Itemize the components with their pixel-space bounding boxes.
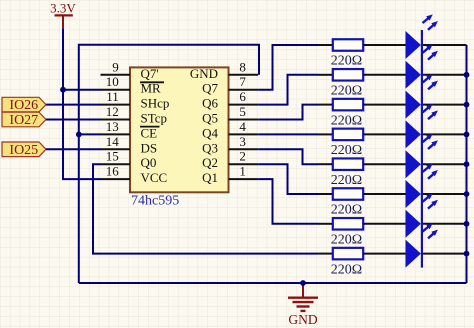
wire R5 to LED D5 anode xyxy=(363,163,406,165)
wire Q4 to row4 xyxy=(258,133,318,135)
junction bus row 2 xyxy=(464,72,470,78)
svg-text:GND: GND xyxy=(190,66,218,81)
svg-text:SHcp: SHcp xyxy=(141,96,170,111)
junction bus row 7 xyxy=(464,221,470,227)
svg-text:13: 13 xyxy=(106,119,119,134)
LED D1 xyxy=(406,14,438,59)
svg-text:DS: DS xyxy=(141,140,158,155)
port IO25 xyxy=(2,142,46,158)
wire R1 to LED D1 anode xyxy=(363,44,406,46)
svg-text:220Ω: 220Ω xyxy=(331,113,362,128)
wire R3 to LED D3 anode xyxy=(363,104,406,106)
junction bus row 4 xyxy=(464,132,470,138)
LED D7 xyxy=(406,193,438,238)
svg-text:220Ω: 220Ω xyxy=(331,173,362,188)
resistor R7 lead left xyxy=(319,223,333,225)
resistor R6 xyxy=(331,188,363,217)
wire R4 to LED D4 anode xyxy=(363,133,406,135)
svg-text:Q2: Q2 xyxy=(202,155,218,170)
svg-text:14: 14 xyxy=(106,134,120,149)
junction bus row 8 xyxy=(464,251,470,257)
wire CE to GND rail xyxy=(79,133,101,135)
resistor R5 lead left xyxy=(319,163,333,165)
resistor R1 xyxy=(331,39,363,68)
wire LED D7 cathode to right bus xyxy=(422,223,467,225)
resistor R2 xyxy=(331,69,363,98)
wire Q2 to row6 xyxy=(258,164,318,194)
svg-text:Q7: Q7 xyxy=(202,81,218,96)
svg-text:220Ω: 220Ω xyxy=(331,143,362,158)
svg-text:12: 12 xyxy=(106,104,119,119)
svg-text:Q3: Q3 xyxy=(202,140,218,155)
pin 3 Q3 xyxy=(202,134,258,156)
power 3.3V xyxy=(50,1,76,29)
wire LED D4 cathode to right bus xyxy=(422,133,467,135)
svg-text:74hc595: 74hc595 xyxy=(131,194,179,209)
junction bus row 3 xyxy=(464,102,470,108)
svg-text:16: 16 xyxy=(106,164,120,179)
resistor R8 lead left xyxy=(319,253,333,255)
svg-text:220Ω: 220Ω xyxy=(331,203,362,218)
svg-text:5: 5 xyxy=(239,104,246,119)
pin 15 Q0 xyxy=(101,149,157,171)
svg-text:8: 8 xyxy=(239,59,246,74)
pin 10 MR xyxy=(101,74,165,96)
junction bus row 6 xyxy=(464,191,470,197)
LED D4 xyxy=(406,104,438,149)
IC U1 74hc595 xyxy=(130,67,229,208)
svg-text:7: 7 xyxy=(239,74,246,89)
svg-text:15: 15 xyxy=(106,149,119,164)
wire LED D2 cathode to right bus xyxy=(422,74,467,76)
wire MR to 3.3V xyxy=(63,89,101,91)
LED D5 xyxy=(406,134,438,179)
svg-text:VCC: VCC xyxy=(141,170,168,185)
ground xyxy=(288,283,318,327)
pin 1 Q1 xyxy=(202,164,258,186)
svg-text:2: 2 xyxy=(239,149,246,164)
svg-text:IO27: IO27 xyxy=(9,113,38,128)
svg-text:3.3V: 3.3V xyxy=(50,1,76,16)
port IO27 xyxy=(2,112,46,128)
wire R8 to LED D8 anode xyxy=(363,253,406,255)
svg-text:Q4: Q4 xyxy=(202,125,218,140)
svg-text:220Ω: 220Ω xyxy=(331,233,362,248)
pin 2 Q2 xyxy=(202,149,258,171)
resistor R8 xyxy=(331,248,363,277)
resistor R5 xyxy=(331,158,363,187)
wire Q7 to row1 xyxy=(258,45,318,90)
LED D8 xyxy=(406,223,438,268)
resistor R2 lead left xyxy=(319,74,333,76)
pin 11 SHcp xyxy=(101,89,170,111)
wire bottom GND bus xyxy=(79,282,467,284)
pin 4 Q4 xyxy=(202,119,258,141)
wire LED D5 cathode to right bus xyxy=(422,163,467,165)
wire Q3 to row5 xyxy=(258,149,318,164)
pin 7 Q7 xyxy=(202,74,258,96)
LED D2 xyxy=(406,44,438,89)
resistor R1 lead left xyxy=(319,44,333,46)
svg-text:STcp: STcp xyxy=(141,111,168,126)
LED D3 xyxy=(406,74,438,119)
svg-text:9: 9 xyxy=(112,59,119,74)
svg-text:4: 4 xyxy=(239,119,246,134)
pin 14 DS xyxy=(101,134,158,156)
svg-text:GND: GND xyxy=(288,312,317,327)
pin 6 Q6 xyxy=(202,89,258,111)
pin 16 VCC xyxy=(101,164,168,186)
svg-text:IO25: IO25 xyxy=(9,143,38,158)
wire R6 to LED D6 anode xyxy=(363,193,406,195)
svg-text:Q1: Q1 xyxy=(202,170,218,185)
wire IO26 to SHcp xyxy=(46,104,101,106)
wire Q0 around to row 8 xyxy=(93,164,319,253)
pin 13 CE xyxy=(101,119,160,141)
svg-text:Q5: Q5 xyxy=(202,111,218,126)
junction bus row 5 xyxy=(464,161,470,167)
wire 3.3V rail xyxy=(63,28,101,179)
pin 12 STcp xyxy=(101,104,168,126)
LED D6 xyxy=(406,163,438,208)
junction 3.3V/MR xyxy=(60,87,66,93)
wire LED D1 cathode to right bus xyxy=(422,44,467,46)
wire IO25 to DS xyxy=(46,148,101,150)
pin 8 GND xyxy=(190,59,258,81)
wire R7 to LED D7 anode xyxy=(363,223,406,225)
resistor R7 xyxy=(331,218,363,247)
svg-text:3: 3 xyxy=(239,134,246,149)
resistor R3 xyxy=(331,99,363,128)
wire IO27 to STcp xyxy=(46,119,101,121)
wire LED D6 cathode to right bus xyxy=(422,193,467,195)
wire right cathode bus xyxy=(466,45,468,283)
wire Q6 to row2 xyxy=(258,75,318,105)
svg-text:1: 1 xyxy=(239,164,246,179)
LED cathode bus line xyxy=(421,30,423,268)
svg-text:Q7': Q7' xyxy=(141,66,159,81)
wire LED D8 cathode to right bus xyxy=(422,253,467,255)
junction GND/CE xyxy=(76,132,82,138)
resistor R3 lead left xyxy=(319,104,333,106)
svg-text:10: 10 xyxy=(106,74,119,89)
wire Q1 to row7 xyxy=(258,179,318,224)
junction GND symbol xyxy=(300,280,306,286)
svg-text:Q0: Q0 xyxy=(141,155,157,170)
resistor R6 lead left xyxy=(319,193,333,195)
wire GND loop pin8 over top to left rail xyxy=(79,45,259,283)
pin 5 Q5 xyxy=(202,104,258,126)
svg-text:6: 6 xyxy=(239,89,246,104)
svg-text:Q6: Q6 xyxy=(202,96,218,111)
resistor R4 lead left xyxy=(319,133,333,135)
svg-text:220Ω: 220Ω xyxy=(331,262,362,277)
wire R2 to LED D2 anode xyxy=(363,74,406,76)
svg-text:11: 11 xyxy=(106,89,119,104)
resistor R4 xyxy=(331,129,363,158)
svg-text:IO26: IO26 xyxy=(9,98,38,113)
svg-text:220Ω: 220Ω xyxy=(331,84,362,99)
wire Q5 to row3 xyxy=(258,105,318,120)
svg-text:220Ω: 220Ω xyxy=(331,54,362,69)
wire LED D3 cathode to right bus xyxy=(422,104,467,106)
pin 9 Q7' xyxy=(101,59,159,81)
port IO26 xyxy=(2,97,46,113)
svg-text:CE: CE xyxy=(141,125,158,140)
